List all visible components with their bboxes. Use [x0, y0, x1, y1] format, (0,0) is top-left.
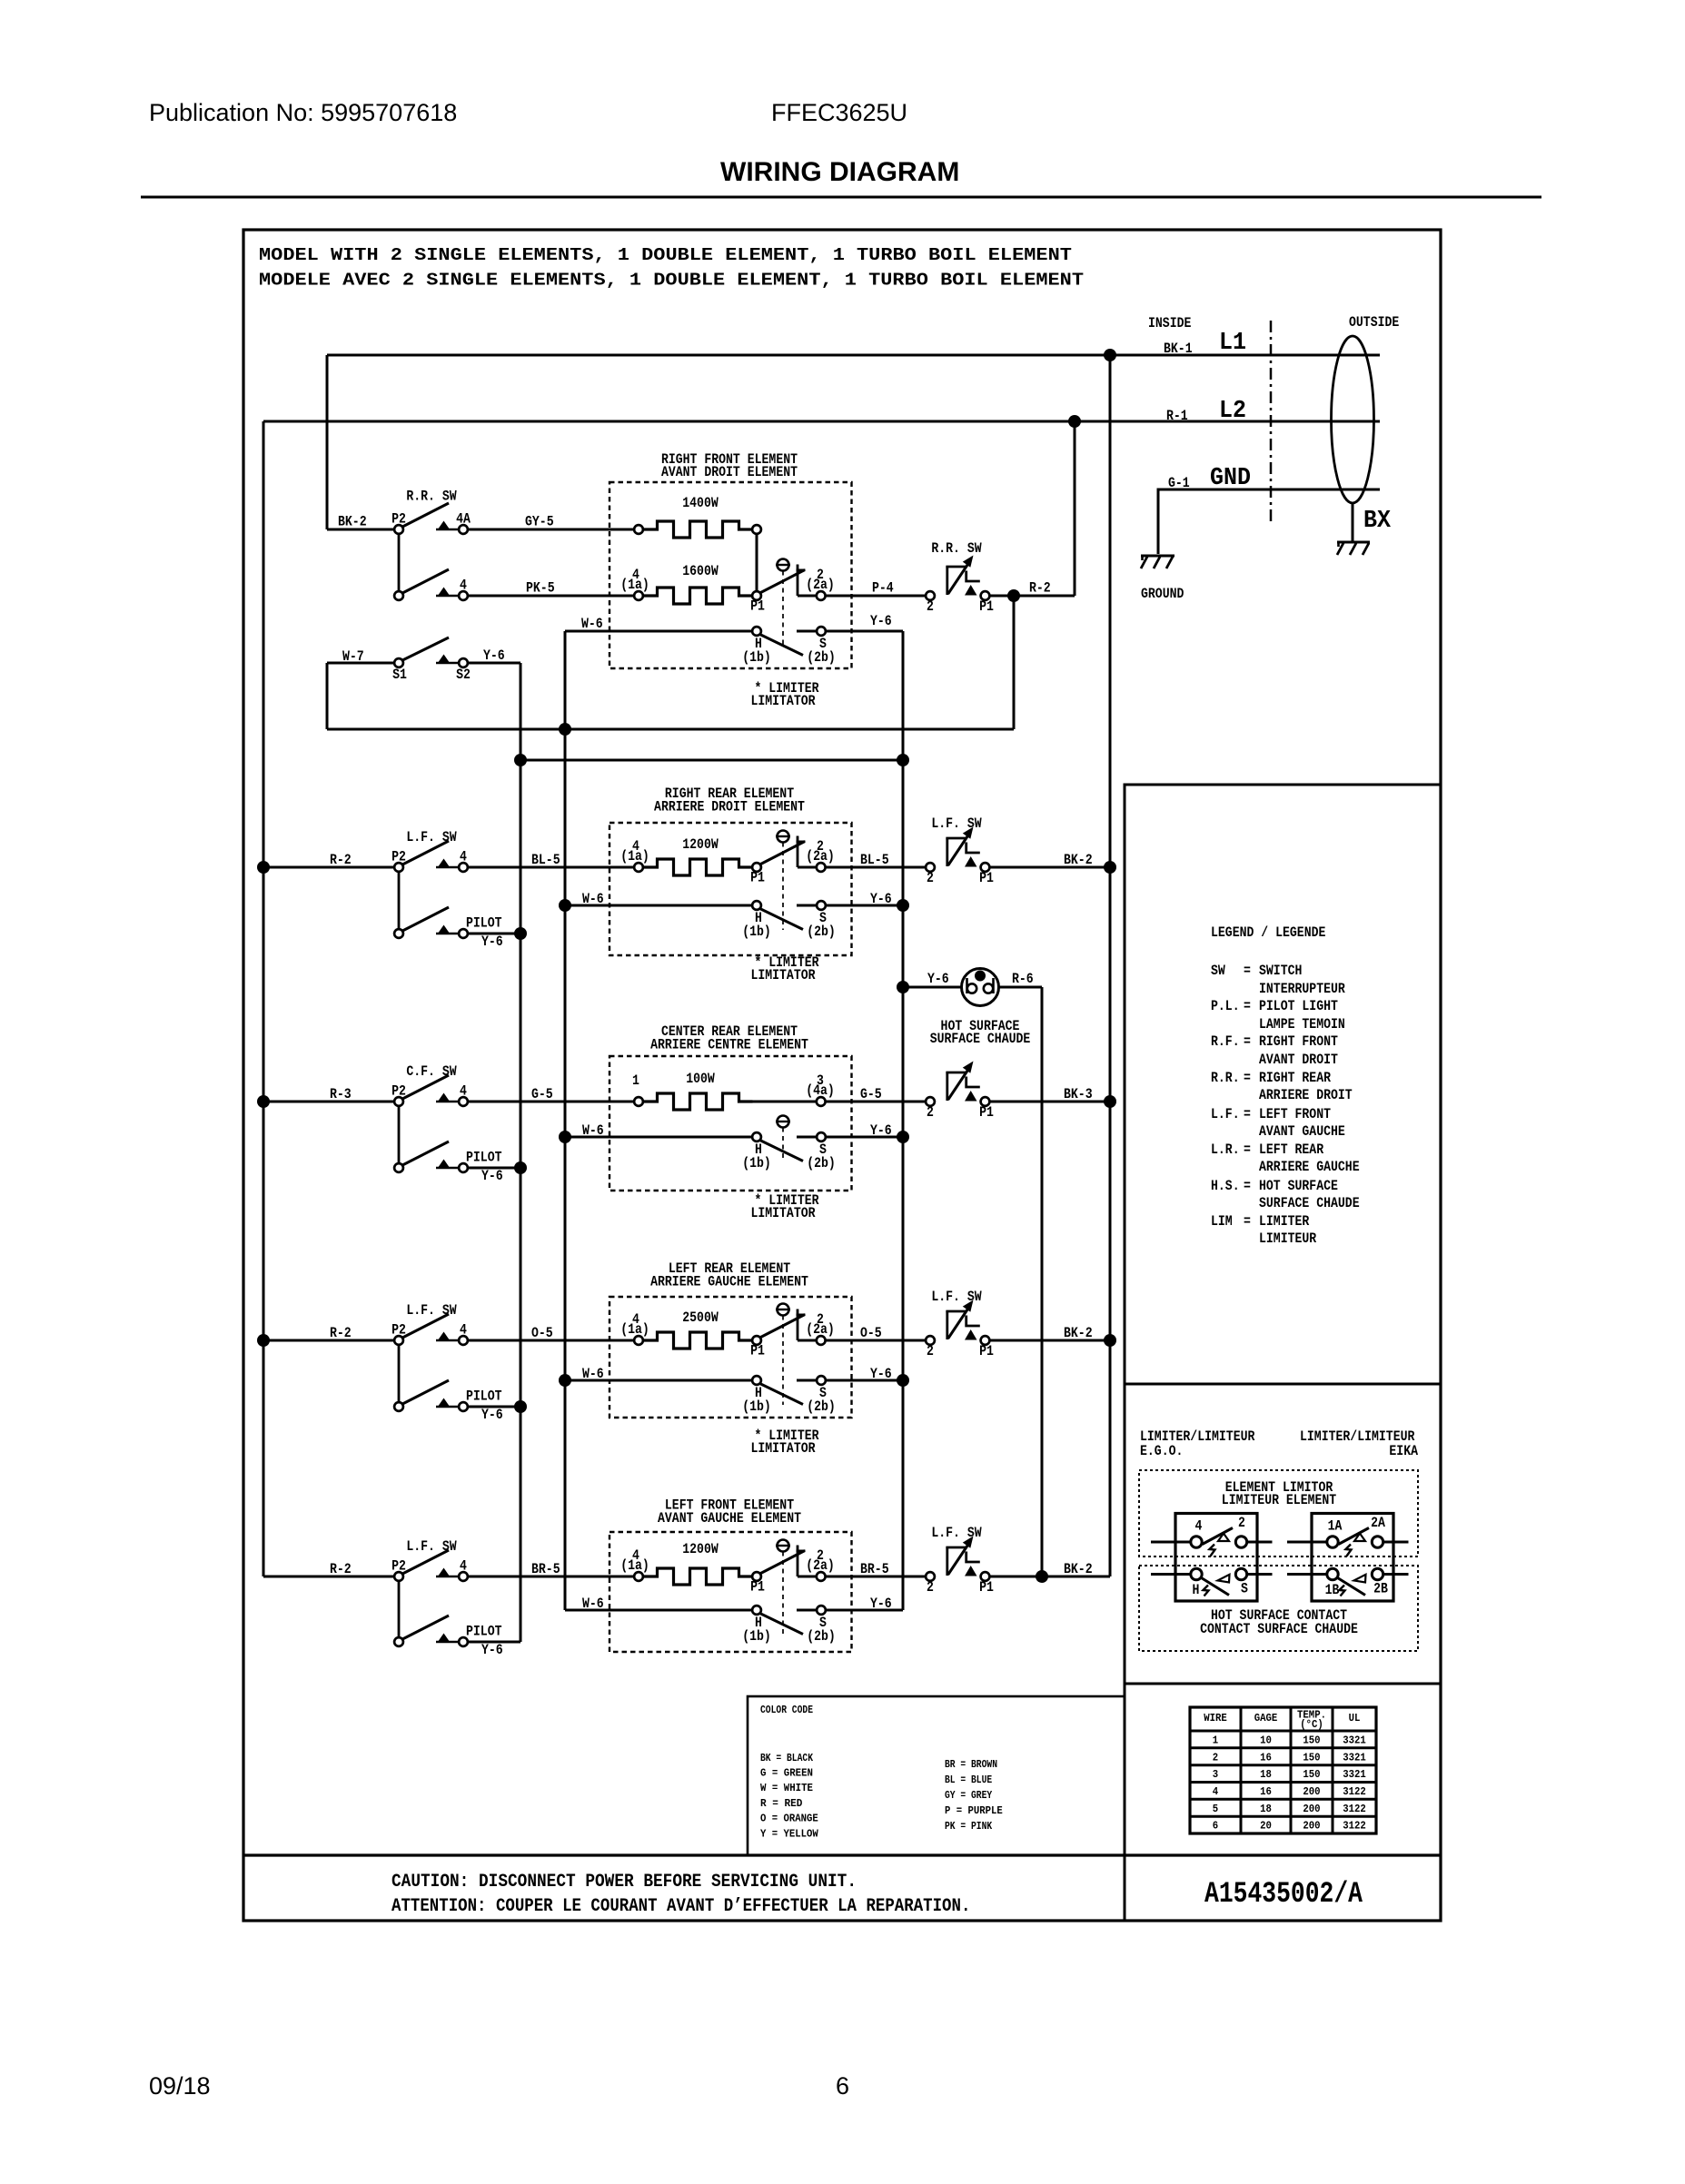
svg-text:A15435002/A: A15435002/A — [1204, 1877, 1363, 1911]
svg-text:O-5: O-5 — [860, 1325, 882, 1341]
svg-text:150: 150 — [1303, 1769, 1320, 1781]
limiter RF blade and contact — [760, 570, 806, 594]
svg-text:200: 200 — [1303, 1821, 1320, 1833]
wire GY-5 — [469, 529, 634, 531]
svg-text:5: 5 — [1213, 1804, 1218, 1815]
wire Y-6 right front — [827, 630, 904, 633]
svg-text:BL = BLUE: BL = BLUE — [945, 1774, 992, 1786]
limiter section divider — [1125, 1683, 1441, 1685]
svg-text:Y-6: Y-6 — [870, 891, 892, 907]
svg-text:P = PURPLE: P = PURPLE — [945, 1805, 1003, 1817]
svg-text:P1: P1 — [750, 598, 765, 615]
svg-text:PILOT: PILOT — [466, 1150, 502, 1166]
svg-text:1A: 1A — [1328, 1518, 1343, 1535]
node junction left rail center rear — [257, 1095, 270, 1108]
svg-text:MODELE AVEC 2 SINGLE ELEMENTS,: MODELE AVEC 2 SINGLE ELEMENTS, 1 DOUBLE … — [259, 271, 1084, 291]
wire bus horizontal y803 — [327, 728, 1014, 731]
svg-text:L.R.: L.R. — [1211, 1141, 1240, 1158]
svg-text:L1: L1 — [1219, 330, 1246, 357]
svg-text:(1a): (1a) — [620, 577, 649, 593]
svg-text:1200W: 1200W — [682, 1541, 719, 1557]
wire rail left main R rail — [263, 421, 265, 1576]
dash-dot partition inside/outside — [1270, 321, 1273, 522]
wire GND G-1 — [1158, 489, 1380, 554]
svg-text:Y-6: Y-6 — [483, 647, 505, 664]
terminal 2a right rear — [817, 863, 826, 872]
svg-text:16: 16 — [1260, 1752, 1272, 1764]
resistor left front 1200W — [634, 1572, 643, 1581]
svg-text:R-2: R-2 — [330, 1561, 352, 1577]
svg-text:O = ORANGE: O = ORANGE — [760, 1813, 818, 1825]
wire rail W-6 column — [564, 631, 567, 1610]
svg-text:L.F. SW: L.F. SW — [931, 815, 982, 832]
theta center rear — [776, 1116, 790, 1128]
svg-text:WIRING DIAGRAM: WIRING DIAGRAM — [720, 157, 959, 187]
svg-text:SURFACE CHAUDE: SURFACE CHAUDE — [1259, 1195, 1360, 1211]
ground symbol chassis — [1141, 555, 1175, 568]
svg-text:L.F. SW: L.F. SW — [406, 1538, 457, 1555]
svg-text:GROUND: GROUND — [1141, 586, 1184, 602]
wire R-2 to rail — [990, 595, 1075, 598]
wire L1 BK-1 — [327, 354, 1380, 357]
svg-text:AVANT DROIT ELEMENT: AVANT DROIT ELEMENT — [661, 464, 798, 480]
svg-text:Y-6: Y-6 — [870, 613, 892, 629]
svg-text:P1: P1 — [750, 870, 765, 886]
svg-text:ARRIERE CENTRE ELEMENT: ARRIERE CENTRE ELEMENT — [650, 1037, 808, 1053]
svg-text:L.F. SW: L.F. SW — [406, 1302, 457, 1319]
thermal switch left front — [926, 1572, 935, 1581]
hot surface contact dotted box — [1139, 1566, 1418, 1651]
node junction R-6 left front — [1036, 1570, 1048, 1583]
node junction W-6 center rear — [559, 1131, 571, 1143]
svg-text:H: H — [1193, 1582, 1200, 1598]
wire BK-3 to BK rail center rear — [990, 1101, 1110, 1103]
wire main row left left rear R-2 — [263, 1339, 393, 1342]
svg-text:LAMPE TEMOIN: LAMPE TEMOIN — [1259, 1016, 1345, 1033]
svg-text:GY = GREY: GY = GREY — [945, 1790, 992, 1802]
svg-text:LIMITEUR ELEMENT: LIMITEUR ELEMENT — [1222, 1492, 1337, 1508]
wire O-5 right left rear — [826, 1339, 925, 1342]
svg-text:UL: UL — [1349, 1713, 1361, 1724]
svg-text:CAUTION: DISCONNECT POWER BEF: CAUTION: DISCONNECT POWER BEFORE SERVICI… — [392, 1872, 857, 1892]
svg-text:SW: SW — [1211, 963, 1225, 979]
svg-text:18: 18 — [1260, 1804, 1272, 1815]
color code entries right — [945, 1759, 1003, 1833]
node junction Y-6 right rear — [897, 899, 909, 912]
svg-text:P2: P2 — [392, 849, 406, 865]
wire main row left left front R-2 — [263, 1576, 393, 1578]
svg-text:PILOT LIGHT: PILOT LIGHT — [1259, 998, 1338, 1014]
svg-text:PILOT: PILOT — [466, 1624, 502, 1640]
svg-text:GND: GND — [1210, 465, 1251, 492]
node junction hot surface Y-6 — [897, 981, 909, 993]
wire L2 R-1 — [263, 420, 1380, 423]
svg-text:PK-5: PK-5 — [526, 580, 555, 597]
svg-text:(1b): (1b) — [742, 924, 771, 940]
svg-text:RIGHT REAR: RIGHT REAR — [1259, 1070, 1331, 1086]
svg-text:3122: 3122 — [1343, 1821, 1366, 1833]
svg-text:2A: 2A — [1371, 1515, 1385, 1531]
svg-text:3321: 3321 — [1343, 1769, 1366, 1781]
svg-text:R-2: R-2 — [1029, 580, 1051, 597]
svg-text:CONTACT SURFACE CHAUDE: CONTACT SURFACE CHAUDE — [1200, 1621, 1358, 1637]
wire rail BK x1222 — [1109, 355, 1112, 1576]
svg-text:P1: P1 — [750, 1579, 765, 1596]
terminal 2a center rear — [817, 1097, 826, 1106]
node junction bus837 right — [897, 754, 909, 766]
node junction BK rail right rear — [1104, 861, 1116, 874]
svg-text:W-7: W-7 — [342, 648, 364, 665]
svg-text:4: 4 — [1195, 1518, 1203, 1535]
wire BL-5 right right rear — [826, 866, 925, 869]
node junction Y-6 center rear — [897, 1131, 909, 1143]
wire Y-6 right rear — [827, 904, 904, 907]
caution band vertical divider — [1124, 785, 1126, 1921]
ground symbol BX — [1337, 541, 1370, 555]
svg-text:BK-3: BK-3 — [1064, 1086, 1093, 1102]
limiter H S contacts left rear — [752, 1376, 761, 1385]
svg-text:1: 1 — [1213, 1735, 1218, 1747]
cable ellipse — [1332, 336, 1374, 503]
svg-text:P2: P2 — [392, 511, 406, 528]
wire pilot to rail left front — [469, 1641, 521, 1644]
svg-text:W-6: W-6 — [582, 1122, 604, 1139]
node junction bus837 left — [514, 754, 527, 766]
svg-text:OUTSIDE: OUTSIDE — [1349, 314, 1399, 331]
wire Y-6 left front — [827, 1609, 904, 1612]
svg-text:L.F. SW: L.F. SW — [931, 1525, 982, 1541]
wire Y-6 left rear — [827, 1379, 904, 1382]
svg-text:Y-6: Y-6 — [481, 1642, 503, 1658]
dashed limiter linkage right rear — [782, 843, 784, 931]
node junction L2 — [1068, 415, 1081, 428]
wire W-6 center rear — [565, 1136, 752, 1139]
thermal switch right rear — [926, 863, 935, 872]
svg-text:=: = — [1244, 998, 1251, 1014]
svg-text:P2: P2 — [392, 1558, 406, 1575]
svg-text:150: 150 — [1303, 1752, 1320, 1764]
svg-text:LIMITEUR: LIMITEUR — [1259, 1230, 1317, 1247]
wire W-6 right rear — [565, 904, 752, 907]
svg-text:(1a): (1a) — [620, 1321, 649, 1338]
legend box — [1125, 785, 1441, 1384]
svg-text:MODEL WITH 2 SINGLE ELEMENTS,: MODEL WITH 2 SINGLE ELEMENTS, 1 DOUBLE E… — [259, 245, 1072, 265]
svg-text:ATTENTION: COUPER LE COURANT A: ATTENTION: COUPER LE COURANT AVANT D’EFF… — [392, 1896, 970, 1917]
svg-text:BK-2: BK-2 — [1064, 1325, 1093, 1341]
svg-text:=: = — [1244, 1141, 1251, 1158]
svg-text:2: 2 — [927, 1579, 934, 1596]
wire O-5 left left rear — [469, 1339, 634, 1342]
svg-text:(2b): (2b) — [807, 1628, 836, 1645]
hot surface indicator circle — [962, 969, 999, 1006]
wire BX drop — [1352, 503, 1354, 542]
svg-text:LIMITATOR: LIMITATOR — [750, 1205, 815, 1221]
svg-text:P1: P1 — [979, 1104, 994, 1121]
svg-text:R-1: R-1 — [1166, 408, 1188, 424]
svg-text:=: = — [1244, 1106, 1251, 1122]
svg-text:RIGHT FRONT: RIGHT FRONT — [1259, 1033, 1338, 1050]
svg-text:L.F. SW: L.F. SW — [406, 829, 457, 845]
svg-text:200: 200 — [1303, 1804, 1320, 1815]
svg-text:=: = — [1244, 963, 1251, 979]
svg-text:L.F. SW: L.F. SW — [931, 1289, 982, 1305]
svg-text:1B: 1B — [1325, 1582, 1340, 1598]
svg-text:(1a): (1a) — [620, 1557, 649, 1574]
wire BK-2 to BK rail left rear — [990, 1339, 1110, 1342]
dashed limiter linkage left front — [782, 1552, 784, 1636]
resistor RF 1600W — [634, 591, 643, 600]
svg-text:P2: P2 — [392, 1322, 406, 1339]
svg-text:BK-2: BK-2 — [338, 514, 367, 530]
limiter RF H S contacts — [752, 627, 761, 636]
node junction pilot left rear — [514, 1400, 527, 1413]
wire Y-6 center rear — [827, 1136, 904, 1139]
svg-text:200: 200 — [1303, 1786, 1320, 1798]
svg-text:P-4: P-4 — [872, 580, 894, 597]
wire PK-5 — [469, 595, 634, 598]
svg-text:EIKA: EIKA — [1389, 1443, 1418, 1459]
svg-text:(°C): (°C) — [1300, 1719, 1323, 1731]
wire pilot to rail left rear — [469, 1406, 521, 1408]
svg-text:LIMITATOR: LIMITATOR — [750, 967, 815, 983]
wire pilot to rail center rear — [469, 1167, 521, 1170]
svg-text:Y-6: Y-6 — [481, 1407, 503, 1423]
svg-text:3: 3 — [1213, 1769, 1218, 1781]
wire resistor join vertical — [756, 535, 758, 591]
svg-text:G-5: G-5 — [860, 1086, 882, 1102]
svg-text:PK = PINK: PK = PINK — [945, 1821, 992, 1833]
wire G-5 right center rear — [826, 1101, 925, 1103]
svg-text:16: 16 — [1260, 1786, 1272, 1798]
thermal switch center rear — [926, 1097, 935, 1106]
svg-text:G-1: G-1 — [1168, 475, 1190, 491]
limiter H S contacts right rear — [752, 901, 761, 910]
wire main row left right rear R-2 — [263, 866, 393, 869]
svg-text:2: 2 — [1213, 1752, 1218, 1764]
svg-text:Y-6: Y-6 — [481, 1168, 503, 1184]
svg-text:Y-6: Y-6 — [870, 1122, 892, 1139]
svg-text:W-6: W-6 — [582, 1366, 604, 1382]
svg-text:P1: P1 — [979, 1343, 994, 1359]
terminal 2a left front — [817, 1572, 826, 1581]
svg-text:SURFACE CHAUDE: SURFACE CHAUDE — [930, 1031, 1031, 1047]
svg-text:LEFT REAR: LEFT REAR — [1259, 1141, 1323, 1158]
svg-text:BR-5: BR-5 — [860, 1561, 889, 1577]
svg-text:100W: 100W — [686, 1071, 715, 1087]
svg-text:PILOT: PILOT — [466, 915, 502, 932]
thermal switch R.R. SW right — [926, 591, 935, 600]
caution band divider — [243, 1853, 1441, 1856]
wire main row left center rear R-3 — [263, 1101, 393, 1103]
svg-text:4: 4 — [460, 1558, 467, 1575]
svg-text:3321: 3321 — [1343, 1752, 1366, 1764]
svg-text:=: = — [1244, 1213, 1251, 1230]
svg-text:LEGEND / LEGENDE: LEGEND / LEGENDE — [1211, 924, 1325, 941]
limiter H S contacts left front — [752, 1606, 761, 1615]
svg-text:4: 4 — [460, 578, 467, 594]
svg-text:S2: S2 — [456, 667, 471, 683]
svg-text:LIM: LIM — [1211, 1213, 1233, 1230]
limiter mini diagram EIKA — [1287, 1514, 1409, 1602]
svg-text:P1: P1 — [979, 1579, 994, 1596]
svg-text:FFEC3625U: FFEC3625U — [771, 99, 907, 126]
svg-text:LIMITATOR: LIMITATOR — [750, 1440, 815, 1457]
svg-text:R-2: R-2 — [330, 1325, 352, 1341]
svg-text:BX: BX — [1363, 508, 1392, 535]
limiter mini diagram EGO — [1151, 1514, 1273, 1602]
svg-text:S: S — [1241, 1581, 1248, 1597]
svg-text:GAGE: GAGE — [1254, 1713, 1278, 1724]
wire gauge table rows — [1213, 1735, 1366, 1833]
limiter blade left rear — [760, 1315, 806, 1339]
wire P-4 — [826, 595, 925, 598]
svg-text:L2: L2 — [1219, 398, 1246, 425]
wire bus horizontal y837 — [520, 759, 903, 762]
wire BR-5 left left front — [469, 1576, 634, 1578]
svg-text:PILOT: PILOT — [466, 1388, 502, 1405]
svg-text:BR-5: BR-5 — [531, 1561, 560, 1577]
wire R-6 hot surface — [999, 986, 1043, 989]
svg-text:150: 150 — [1303, 1735, 1320, 1747]
node junction BK rail left rear — [1104, 1334, 1116, 1347]
color code entries left — [760, 1753, 818, 1841]
svg-text:S1: S1 — [392, 667, 407, 683]
node junction W-6 left rear — [559, 1374, 571, 1387]
svg-text:1600W: 1600W — [682, 563, 719, 579]
svg-text:2: 2 — [927, 870, 934, 886]
dashed limiter linkage RF — [782, 571, 784, 647]
node junction W-6 right rear — [559, 899, 571, 912]
title underline rule — [141, 196, 1541, 199]
wire BL-5 left right rear — [469, 866, 634, 869]
wire BK-2 to BK rail left front — [990, 1576, 1110, 1578]
svg-text:ARRIERE GAUCHE ELEMENT: ARRIERE GAUCHE ELEMENT — [650, 1274, 808, 1290]
svg-text:BK-2: BK-2 — [1064, 852, 1093, 868]
svg-text:W-6: W-6 — [582, 1596, 604, 1612]
terminal 2a RF — [817, 591, 826, 600]
wire rail W-7 to bus — [326, 663, 329, 729]
svg-text:P1: P1 — [750, 1343, 765, 1359]
svg-text:(1b): (1b) — [742, 649, 771, 666]
svg-text:4: 4 — [460, 1322, 467, 1339]
svg-text:O-5: O-5 — [531, 1325, 553, 1341]
svg-text:4: 4 — [460, 849, 467, 865]
element box right front — [610, 482, 852, 668]
wire Y-6 to hot surface — [903, 986, 962, 989]
main diagram border — [243, 230, 1441, 1921]
svg-text:R.F.: R.F. — [1211, 1033, 1240, 1050]
element box left rear — [610, 1297, 852, 1418]
svg-text:ARRIERE DROIT: ARRIERE DROIT — [1259, 1087, 1353, 1103]
wire rail R-6 x1147 — [1041, 987, 1044, 1576]
wire pilot to rail right rear — [469, 933, 521, 935]
svg-text:(1b): (1b) — [742, 1628, 771, 1645]
svg-text:C.F. SW: C.F. SW — [406, 1063, 457, 1080]
svg-text:18: 18 — [1260, 1769, 1272, 1781]
svg-text:4A: 4A — [456, 511, 471, 528]
limiter blade right rear — [760, 842, 806, 865]
svg-text:W = WHITE: W = WHITE — [760, 1783, 813, 1794]
svg-text:INSIDE: INSIDE — [1148, 315, 1191, 331]
svg-text:W-6: W-6 — [582, 891, 604, 907]
svg-text:AVANT DROIT: AVANT DROIT — [1259, 1052, 1338, 1068]
svg-text:AVANT GAUCHE: AVANT GAUCHE — [1259, 1123, 1345, 1140]
svg-text:LIMITATOR: LIMITATOR — [750, 693, 815, 709]
svg-text:6: 6 — [1213, 1821, 1218, 1833]
svg-text:2: 2 — [927, 1104, 934, 1121]
svg-text:R.R. SW: R.R. SW — [931, 540, 982, 557]
svg-text:4: 4 — [460, 1083, 467, 1100]
svg-text:=: = — [1244, 1178, 1251, 1194]
element box left front — [610, 1532, 852, 1652]
svg-text:Y-6: Y-6 — [870, 1596, 892, 1612]
svg-text:Publication No: 5995707618: Publication No: 5995707618 — [149, 99, 457, 126]
switch S1 S2 — [327, 637, 520, 667]
svg-text:SWITCH: SWITCH — [1259, 963, 1302, 979]
wire G-5 left center rear — [469, 1101, 634, 1103]
node junction R-2 bus — [1007, 589, 1020, 602]
svg-text:09/18: 09/18 — [149, 2072, 211, 2100]
svg-text:R-2: R-2 — [330, 852, 352, 868]
svg-text:(1b): (1b) — [742, 1398, 771, 1415]
svg-text:10: 10 — [1260, 1735, 1272, 1747]
svg-text:INTERRUPTEUR: INTERRUPTEUR — [1259, 981, 1345, 997]
node junction left rail left rear — [257, 1334, 270, 1347]
svg-text:(2b): (2b) — [807, 649, 836, 666]
svg-text:Y-6: Y-6 — [927, 971, 949, 987]
node junction pilot right rear — [514, 927, 527, 940]
color code box — [748, 1696, 1125, 1855]
svg-text:1: 1 — [632, 1072, 639, 1089]
svg-text:(2b): (2b) — [807, 924, 836, 940]
svg-text:2: 2 — [927, 598, 934, 615]
svg-text:(1a): (1a) — [620, 848, 649, 865]
wire rail Y-6 pilot column — [520, 663, 522, 1642]
svg-text:=: = — [1244, 1070, 1251, 1086]
switch L.F. SW left rear — [394, 1314, 468, 1411]
svg-text:4: 4 — [1213, 1786, 1218, 1798]
svg-text:BL-5: BL-5 — [531, 852, 560, 868]
wire gauge table header — [1204, 1710, 1360, 1732]
svg-text:1400W: 1400W — [682, 495, 719, 511]
limiter blade left front — [760, 1551, 806, 1575]
svg-text:3122: 3122 — [1343, 1804, 1366, 1815]
legend entries — [1211, 963, 1360, 1247]
svg-text:3122: 3122 — [1343, 1786, 1366, 1798]
node junction L1 rail — [1104, 349, 1116, 361]
svg-text:1200W: 1200W — [682, 836, 719, 853]
wire W-6 left front — [565, 1609, 752, 1612]
svg-text:COLOR CODE: COLOR CODE — [760, 1705, 813, 1716]
resistor RF 1400W — [634, 525, 643, 534]
svg-text:(1b): (1b) — [742, 1155, 771, 1171]
node junction bus W-6 — [559, 723, 571, 736]
svg-text:HOT SURFACE: HOT SURFACE — [1259, 1178, 1338, 1194]
limiter H S contacts center rear — [752, 1132, 761, 1141]
switch C.F. SW center rear — [394, 1075, 468, 1172]
svg-text:(2b): (2b) — [807, 1398, 836, 1415]
svg-text:6: 6 — [836, 2072, 849, 2100]
svg-text:BK-2: BK-2 — [1064, 1561, 1093, 1577]
svg-text:G-5: G-5 — [531, 1086, 553, 1102]
node junction left rail right rear — [257, 861, 270, 874]
resistor right rear 1200W — [634, 863, 643, 872]
element box right rear — [610, 823, 852, 955]
svg-text:=: = — [1244, 1033, 1251, 1050]
resistor left rear 2500W — [634, 1336, 643, 1345]
element box center rear — [610, 1056, 852, 1191]
svg-text:W-6: W-6 — [581, 616, 603, 632]
